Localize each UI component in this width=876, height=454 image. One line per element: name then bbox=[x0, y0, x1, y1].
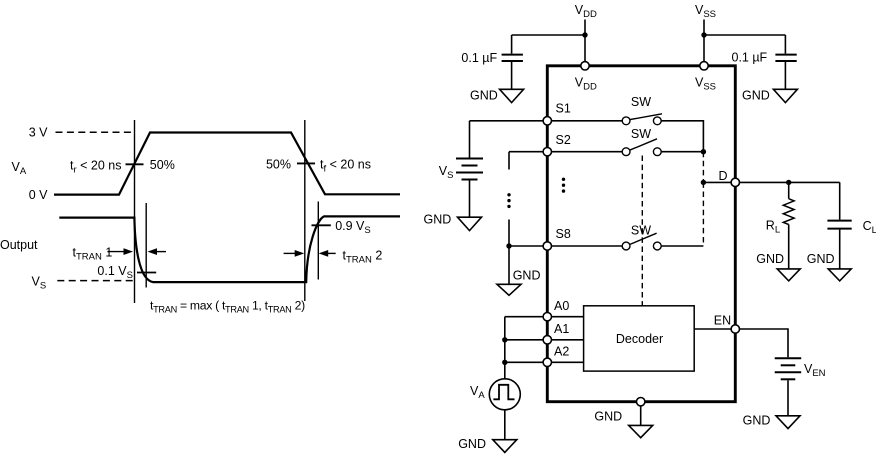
node 0.9 VS tick mark bbox=[312, 224, 331, 226]
svg-text:GND: GND bbox=[594, 409, 622, 423]
svg-text:A2: A2 bbox=[554, 344, 569, 358]
wire A bus vertical bbox=[504, 317, 506, 379]
node A1 junction bbox=[502, 337, 507, 342]
svg-text:VS: VS bbox=[32, 274, 47, 291]
wire S2 to switch bbox=[552, 151, 623, 153]
node VSS junction bbox=[701, 32, 706, 37]
svg-text:GND: GND bbox=[513, 269, 541, 283]
wire vertical cursor tTRAN2 end bbox=[317, 202, 319, 280]
pin VDD bbox=[575, 62, 597, 93]
ground under RL bbox=[756, 252, 800, 281]
svg-text:GND: GND bbox=[458, 437, 486, 451]
wire dashed decoder control line bbox=[641, 156, 643, 306]
svg-text:VA: VA bbox=[470, 384, 485, 401]
svg-text:GND: GND bbox=[470, 89, 498, 103]
wire SW8 to bus bbox=[661, 245, 703, 247]
capacitor CL bbox=[827, 182, 876, 269]
node label tTRAN = max ( tTRAN 1, tTRAN 2) bbox=[150, 299, 305, 315]
wire dashed D node to SW8 bbox=[702, 182, 704, 246]
svg-text:tTRAN = max ( tTRAN 1, tTRAN 2: tTRAN = max ( tTRAN 1, tTRAN 2) bbox=[150, 299, 305, 315]
pin GND bottom bbox=[637, 398, 645, 406]
svg-text:VEN: VEN bbox=[804, 362, 826, 379]
source VA pulse generator bbox=[470, 379, 520, 410]
switch SW1 bbox=[622, 95, 662, 125]
svg-text:tTRAN 2: tTRAN 2 bbox=[343, 248, 383, 265]
capacitor C2 0.1 uF bbox=[732, 35, 797, 89]
node label 50% falling bbox=[266, 157, 291, 171]
svg-text:GND: GND bbox=[742, 89, 770, 103]
node ellipsis dots left bus bbox=[507, 193, 510, 208]
pin A0 bbox=[543, 299, 569, 321]
wire S8 to switch bbox=[552, 245, 623, 247]
wire A1 to decoder bbox=[552, 339, 584, 341]
pin S8 bbox=[543, 227, 571, 250]
node S8 junction bbox=[506, 243, 511, 248]
svg-text:S8: S8 bbox=[556, 227, 571, 241]
node label Output bbox=[0, 238, 38, 252]
mux device U1 outline bbox=[547, 66, 735, 402]
wire VSS stub bbox=[703, 20, 705, 62]
wire dashed SW2 junction to D node bbox=[702, 152, 704, 183]
wire decoder to EN pin bbox=[694, 328, 731, 330]
node tTRAN2 arrow left bbox=[319, 250, 336, 257]
node VDD junction bbox=[582, 32, 587, 37]
svg-text:0.1 µF: 0.1 µF bbox=[461, 51, 497, 65]
svg-text:VSS: VSS bbox=[695, 75, 716, 92]
svg-text:D: D bbox=[719, 169, 728, 183]
ground under VA bbox=[458, 437, 517, 452]
svg-text:VDD: VDD bbox=[575, 75, 597, 92]
svg-text:SW: SW bbox=[631, 224, 651, 238]
svg-text:GND: GND bbox=[743, 414, 771, 428]
svg-text:0.1 µF: 0.1 µF bbox=[732, 51, 768, 65]
wire vertical cursor at rising-edge 50% bbox=[134, 120, 136, 303]
svg-text:VA: VA bbox=[12, 160, 27, 177]
node label 50% rising bbox=[150, 158, 175, 172]
ground under device bbox=[594, 409, 652, 437]
wire VDD to bypass cap bbox=[512, 34, 585, 36]
wire A0 left bbox=[505, 316, 543, 318]
wire VS to S1 bbox=[470, 120, 544, 122]
wire S8 left bbox=[509, 245, 543, 247]
node VSS supply label bbox=[695, 3, 716, 20]
svg-text:0 V: 0 V bbox=[29, 188, 48, 202]
pin S1 bbox=[543, 101, 571, 125]
svg-text:EN: EN bbox=[714, 314, 731, 328]
node label tTRAN 1 bbox=[73, 246, 113, 263]
svg-text:RL: RL bbox=[766, 218, 780, 235]
svg-text:SW: SW bbox=[631, 127, 651, 141]
svg-text:GND: GND bbox=[807, 252, 835, 266]
svg-text:tf < 20 ns: tf < 20 ns bbox=[320, 157, 371, 174]
svg-text:VS: VS bbox=[439, 164, 454, 181]
switch SW8 bbox=[622, 224, 661, 250]
svg-text:S2: S2 bbox=[556, 133, 571, 147]
wire vertical cursor tTRAN1 end bbox=[145, 203, 147, 288]
wire VA to ground bbox=[504, 410, 506, 440]
svg-text:Decoder: Decoder bbox=[616, 332, 663, 346]
ground under VEN bbox=[743, 414, 800, 429]
svg-text:CL: CL bbox=[863, 219, 876, 236]
pin S2 bbox=[543, 133, 571, 156]
wire A0 to decoder bbox=[552, 316, 584, 318]
node D junction bbox=[701, 180, 706, 185]
wire D pin to load bbox=[740, 181, 840, 183]
svg-text:Output: Output bbox=[0, 238, 38, 252]
node VS dashed reference line bbox=[57, 280, 134, 282]
ground under VS bbox=[424, 213, 482, 231]
node label 3 V bbox=[29, 126, 48, 140]
node VA input waveform bbox=[54, 133, 400, 195]
node tTRAN2 arrow right bbox=[284, 250, 305, 257]
decoder block bbox=[584, 306, 695, 371]
node SW2 output junction bbox=[701, 149, 706, 154]
node label 0.9 VS bbox=[335, 219, 371, 236]
ground under CL bbox=[807, 252, 851, 281]
capacitor C1 0.1 uF bbox=[461, 35, 523, 89]
node tTRAN1 arrow left bbox=[148, 248, 167, 255]
svg-text:GND: GND bbox=[756, 252, 784, 266]
svg-text:S1: S1 bbox=[556, 101, 571, 115]
node label 0.1 VS bbox=[97, 264, 133, 281]
node label tf < 20 ns bbox=[320, 157, 371, 174]
svg-text:VSS: VSS bbox=[695, 3, 716, 20]
resistor RL bbox=[766, 182, 794, 269]
svg-text:0.1 VS: 0.1 VS bbox=[97, 264, 133, 281]
node 3V dashed reference line bbox=[56, 131, 135, 133]
pin VSS bbox=[695, 62, 716, 93]
wire S2 left bbox=[509, 151, 543, 153]
svg-text:A0: A0 bbox=[554, 299, 569, 313]
wire VSS to bypass cap bbox=[704, 34, 785, 36]
svg-text:0.9 VS: 0.9 VS bbox=[335, 219, 371, 236]
wire S1 to switch bbox=[552, 120, 623, 122]
wire SW1 to bus bbox=[661, 121, 703, 152]
battery VS bbox=[439, 121, 483, 217]
svg-text:3 V: 3 V bbox=[29, 126, 48, 140]
switch SW2 bbox=[622, 127, 661, 156]
wire vertical cursor at falling-edge 50% bbox=[304, 120, 306, 301]
wire D node to D pin bbox=[703, 181, 731, 183]
svg-text:50%: 50% bbox=[150, 158, 175, 172]
wire A1 left bbox=[505, 339, 543, 341]
node label tr < 20 ns bbox=[70, 158, 121, 175]
wire EN to VEN bbox=[740, 329, 789, 357]
svg-text:GND: GND bbox=[424, 213, 452, 227]
svg-text:SW: SW bbox=[631, 95, 651, 109]
node label VA bbox=[12, 160, 27, 177]
wire S8 junction to ground bbox=[508, 246, 510, 284]
node label tTRAN 2 bbox=[343, 248, 383, 265]
ground under C1 bbox=[470, 89, 524, 103]
ground under C2 bbox=[742, 89, 797, 103]
wire A2 to decoder bbox=[552, 361, 584, 363]
wire left bus upper segment bbox=[508, 152, 510, 170]
node VDD supply label bbox=[575, 3, 597, 20]
wire A2 left bbox=[505, 361, 543, 363]
wire VDD stub bbox=[584, 20, 586, 62]
pin A2 bbox=[543, 344, 569, 366]
node 50% tick mark falling edge bbox=[297, 162, 315, 164]
svg-text:tTRAN 1: tTRAN 1 bbox=[73, 246, 113, 263]
wire SW2 to junction bbox=[661, 151, 703, 153]
node tTRAN1 arrow right bbox=[107, 248, 133, 255]
pin A1 bbox=[543, 322, 569, 344]
node ellipsis dots inside device bbox=[562, 178, 565, 193]
wire GND pin to ground bbox=[640, 406, 642, 426]
pin EN bbox=[714, 314, 740, 334]
svg-text:50%: 50% bbox=[266, 157, 291, 171]
node label VS bbox=[32, 274, 47, 291]
node label 0 V bbox=[29, 188, 48, 202]
svg-text:VDD: VDD bbox=[575, 3, 597, 20]
node 0.1 VS tick mark bbox=[137, 272, 156, 274]
wire left bus lower segment bbox=[508, 220, 510, 247]
ground under S8 bus bbox=[497, 269, 540, 296]
node RL junction bbox=[786, 180, 791, 185]
pin D bbox=[719, 169, 740, 187]
node Output waveform bbox=[59, 216, 400, 282]
node 50% tick mark rising edge bbox=[126, 163, 144, 165]
node A2 junction bbox=[502, 360, 507, 365]
svg-text:tr < 20 ns: tr < 20 ns bbox=[70, 158, 121, 175]
svg-text:A1: A1 bbox=[554, 322, 569, 336]
battery VEN bbox=[775, 358, 826, 416]
